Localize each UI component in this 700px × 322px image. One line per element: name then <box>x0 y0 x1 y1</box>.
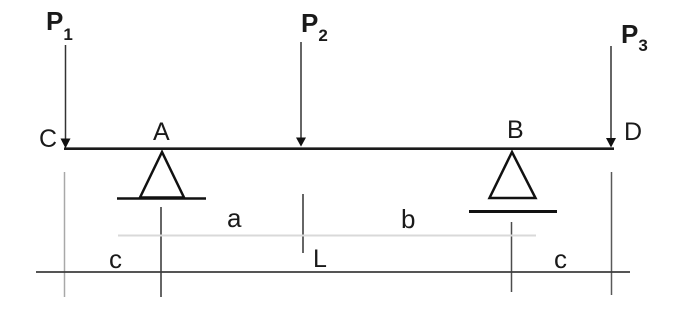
svg-text:c: c <box>109 244 122 274</box>
svg-text:B: B <box>507 116 524 144</box>
svg-text:C: C <box>39 125 57 153</box>
svg-text:a: a <box>227 203 242 233</box>
svg-text:b: b <box>401 204 415 234</box>
svg-text:c: c <box>554 244 567 274</box>
svg-text:D: D <box>624 118 642 146</box>
svg-text:L: L <box>313 245 327 273</box>
svg-text:A: A <box>153 118 170 146</box>
